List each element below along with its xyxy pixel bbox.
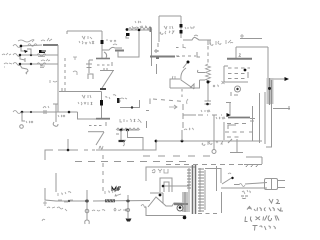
label mic scribble (4, 63, 12, 67)
label 1PF (185, 27, 195, 29)
note line2 (247, 207, 283, 212)
grid dashes in box (228, 68, 250, 79)
chassis corner bottom right (244, 157, 262, 167)
dash right (146, 110, 149, 112)
coupling cap C1 black blob (101, 40, 104, 44)
small ticks on wire (58, 200, 73, 202)
dash right of bar (176, 48, 180, 57)
input squiggle (13, 111, 21, 114)
label V3 (82, 95, 91, 98)
note V2 (269, 199, 280, 204)
cathode bar V3 (88, 131, 104, 133)
choke dot (68, 200, 70, 202)
B+ wire right (93, 200, 150, 203)
resistor R2 bumps (37, 54, 46, 57)
junction dot2 (30, 111, 32, 113)
speaker arrow line (273, 78, 285, 80)
node dot J3 (19, 63, 22, 66)
dashed row y161 (75, 161, 190, 163)
hooks below circle (231, 92, 238, 96)
label 47k row3 (41, 59, 50, 61)
cap blob upper right (117, 98, 120, 103)
top corner wire (236, 47, 268, 58)
tick above bar (154, 49, 158, 53)
label 10k (105, 190, 116, 194)
end tick (150, 27, 152, 32)
ground dark (119, 140, 126, 142)
dashed row y156 (143, 155, 216, 157)
V2 DRIVER / 56k SECTION (118, 16, 225, 105)
cap ticks on wire (44, 110, 46, 114)
corner up x230 (226, 103, 231, 116)
dot A (120, 129, 123, 132)
dashed vertical x103 (102, 155, 104, 192)
tick mark a (73, 57, 77, 60)
grid feed hook (198, 70, 206, 73)
bracket shapes (228, 125, 236, 129)
OT left lead (252, 106, 254, 141)
small circle bottom (212, 150, 216, 154)
junction dot row2 (30, 54, 32, 56)
corner to dashed row (149, 99, 151, 105)
label right of top (216, 117, 225, 119)
Mf dark label (112, 187, 121, 191)
V2 tube plate stroke (183, 63, 187, 68)
left bracket grid (170, 79, 200, 88)
corner bracket far left (45, 150, 53, 160)
jack J3 squiggle (13, 63, 21, 66)
ground tee left (58, 139, 78, 150)
grid leak drop (22, 112, 25, 121)
cathode hook left (88, 74, 93, 79)
coupling wire corner (120, 100, 140, 108)
input bus vertical (57, 45, 59, 112)
dashed vertical x182 upper (181, 89, 183, 98)
junction dot cathode (207, 81, 210, 84)
thick bar into PT (174, 203, 188, 205)
main junction dot (85, 199, 88, 202)
scribble right of blob (120, 98, 127, 99)
tick right (247, 72, 249, 78)
label input scribble (18, 40, 34, 42)
grid dashes V1a (97, 64, 110, 66)
dashes right of bar (176, 55, 196, 57)
grid line vertical x183 (182, 104, 184, 130)
small squiggle below label (113, 44, 117, 45)
node dot left (126, 28, 129, 31)
node dot J1 (20, 45, 23, 48)
label 12AX7 b (78, 102, 92, 105)
plate bar 2 thick (228, 117, 250, 119)
switch label (228, 173, 231, 174)
plate bar V1a (96, 58, 110, 60)
dot at step (155, 140, 158, 143)
label 56k (135, 21, 141, 23)
L mark (197, 52, 200, 57)
line to fuse (234, 184, 239, 186)
dot in box (244, 69, 247, 72)
screen filter vertical (127, 195, 129, 218)
step from y150 (96, 141, 156, 150)
INPUT SECTION TOP LEFT (2, 38, 58, 112)
hook below J3 (20, 65, 28, 74)
dash left (116, 133, 119, 135)
resistor R3 ticks (40, 66, 45, 68)
speaker lower line (273, 106, 290, 110)
tube box 2 (223, 122, 225, 140)
hook up from row2 dot (27, 49, 31, 55)
grid dashes box2 (225, 124, 248, 138)
plug body (265, 179, 278, 190)
label 47k row1 (41, 38, 52, 41)
label V2 (164, 26, 173, 29)
drop right stepping (128, 130, 144, 150)
ground small (20, 125, 24, 129)
thick wire segment row1 (43, 44, 58, 46)
grid tick V3 (105, 122, 107, 126)
note line small (241, 196, 248, 199)
note line3 (245, 216, 279, 222)
MAINS: SWITCH FUSE PLUG (205, 169, 285, 195)
label 12A (58, 192, 71, 196)
cathode resistor zigzag vertical x208 (207, 41, 209, 46)
cathode diagonal V3 (96, 132, 104, 145)
ground black (126, 219, 132, 222)
label 12AX7 (79, 41, 94, 44)
main filter vertical (86, 190, 88, 220)
label 6L6 (210, 40, 233, 45)
terminal circle (235, 86, 241, 92)
label .02 (184, 128, 193, 130)
coupling caps x181 blobs (180, 16, 182, 38)
label 47k cathode (213, 85, 218, 87)
label 2 above bar (239, 54, 241, 57)
HANDWRITTEN NOTES BOTTOM RIGHT (241, 196, 283, 231)
lower AC line (221, 187, 267, 189)
corner tick (43, 201, 47, 206)
small n mark (42, 219, 45, 221)
10k resistor dark block (105, 199, 115, 202)
label 2uF right (105, 95, 121, 101)
label V1 (82, 36, 92, 39)
cathode drop x56 (53, 104, 58, 122)
left lead ticks (249, 119, 255, 133)
label 1W (132, 26, 146, 28)
ground blob (53, 122, 58, 126)
OT vertical feed (266, 47, 272, 147)
thick bar on branch (115, 50, 124, 52)
V3 LOWER PREAMP STAGE (13, 92, 184, 151)
arrow toward dashes (169, 105, 177, 109)
grid dashes V3 (89, 125, 104, 127)
label 1A (242, 190, 250, 194)
RECTIFIER / 5Y3 BOX (146, 167, 196, 203)
dashdot grid line y115 (183, 114, 196, 116)
vertical x152 (151, 29, 153, 66)
junction dot mid (138, 29, 141, 32)
hump (148, 197, 186, 207)
POWER TRANSFORMER (182, 165, 222, 214)
LONG GROUND LINE y141 (45, 130, 262, 160)
mid bracket (200, 80, 206, 88)
resistor R3 bumps (37, 63, 46, 66)
bottom dashes (198, 213, 218, 215)
label uF (43, 106, 49, 108)
cathode diagonal (102, 71, 113, 88)
DASHED CHASSIS LINES (75, 155, 262, 192)
curl end (187, 99, 188, 104)
label 6L6 2 (202, 141, 223, 145)
plate vertical V3 (101, 92, 103, 119)
plate line upper (240, 38, 262, 40)
blob under bar (156, 57, 159, 59)
junction dot x69 (68, 111, 71, 114)
dot x182 (181, 140, 184, 143)
COUPLING TO 6L6 #2 (169, 89, 250, 154)
OT core lines (260, 92, 266, 144)
HEATER HUMP + B+ ENTRY (141, 197, 188, 219)
wire J2 (21, 54, 58, 56)
dot on plate (187, 61, 190, 64)
label 47k right of blob (106, 40, 116, 42)
junction dot (21, 111, 24, 114)
small arrow label (115, 194, 121, 196)
dashed row y164 (166, 164, 244, 166)
screen node dot (127, 200, 130, 203)
resistor R1 bumps (28, 44, 37, 47)
fuse curl (141, 205, 146, 208)
V1 STAGE TOP CENTER (59, 31, 124, 92)
heater wire lower (150, 193, 163, 203)
cathode hook small (104, 52, 107, 58)
label 8uF arrow (114, 208, 127, 211)
label 5Y3 (152, 169, 168, 173)
label 40uF (92, 210, 105, 211)
drop from 56k node (118, 31, 139, 57)
curl on line (99, 146, 103, 149)
tick below line (183, 44, 186, 48)
B+ wire left (56, 200, 87, 202)
small squiggle above line (123, 140, 126, 146)
cap circle 2 (126, 208, 129, 211)
branch y50 with curl (102, 47, 122, 50)
DASHED BOX EDGE LEFT OF V1 (64, 58, 66, 92)
right enclosure (217, 166, 222, 213)
resistor dark block row1b (40, 51, 46, 53)
OT secondary winding hatch (269, 78, 271, 105)
PT top lead (205, 169, 221, 184)
line y141 (156, 140, 262, 142)
tick column (146, 121, 148, 128)
drop to 6L6 box (209, 40, 211, 44)
label on hump (194, 35, 198, 36)
fuse squiggle (239, 184, 245, 187)
label 1M above (201, 110, 210, 112)
jack switch hook row1 (21, 47, 25, 51)
tiny label 1u (173, 76, 176, 79)
corner from left (45, 173, 56, 201)
wire y186 to PT (163, 185, 189, 187)
junction dot row3 (30, 63, 32, 65)
arrow contact black (24, 50, 28, 53)
plate bar thick (227, 58, 252, 60)
6L6 #1 TOP RIGHT (210, 34, 268, 96)
thick bar left x152 bottom (150, 56, 175, 58)
stub below bar (156, 64, 158, 74)
dashed vertical x65 (64, 58, 66, 92)
screen resistor hump line y40 (183, 37, 211, 40)
ground loop (85, 220, 90, 224)
resistor 56k zigzag (128, 27, 152, 30)
lower loop (146, 207, 186, 216)
tube box (224, 66, 248, 82)
label left row2 scribble (2, 53, 11, 55)
POWER SUPPLY B+ RAIL BOTTOM LEFT (42, 173, 150, 224)
mixer resistor zigzag (116, 128, 140, 130)
dot on winding (268, 87, 271, 90)
plate wire v1 (101, 31, 103, 59)
switch blade (222, 177, 233, 184)
percent mark (138, 119, 141, 123)
bypass cap bottom (205, 101, 212, 104)
cap blob below left dot (126, 33, 130, 36)
line to plug top (245, 183, 267, 185)
junction dot on corner wire (131, 106, 133, 108)
label 6SC7 (160, 31, 174, 34)
arrowhead black (227, 113, 232, 117)
wire under zigzag (117, 129, 139, 131)
junction dark (183, 216, 187, 220)
right winding hatch (199, 168, 201, 212)
label 47k x58 (58, 115, 65, 117)
link from x182 dashes (181, 130, 183, 141)
jack J1 squiggle (13, 45, 21, 48)
dot B (126, 129, 129, 132)
note line4 (253, 226, 276, 231)
cathode bar V1a (100, 68, 114, 71)
OUTPUT TRANSFORMER AREA (249, 47, 290, 147)
wire to lower stage (59, 88, 102, 92)
dashed row y98 (153, 99, 184, 102)
grid tick (111, 62, 113, 66)
grid cap column left (86, 60, 93, 73)
box top (146, 167, 196, 181)
small x mark (222, 81, 225, 84)
label watts scribble (47, 207, 67, 211)
secondary ticks (204, 170, 206, 210)
wire to V3 grid (21, 111, 78, 113)
node dot J2 (19, 54, 22, 57)
core lines dark (193, 165, 196, 214)
tick mark b (73, 71, 77, 75)
plate bar V3 (96, 118, 110, 120)
plus mark (240, 34, 244, 38)
top frame line (159, 16, 181, 42)
small marks right of dashed box edge (73, 57, 77, 75)
wire under zigzag (128, 29, 150, 31)
grid stopper hook row2 (20, 56, 25, 62)
label cluster tone (120, 119, 135, 122)
grid return vertical x214 (213, 115, 215, 150)
jack J2 squiggle (13, 54, 21, 57)
supply wire top (67, 31, 102, 34)
drop left to ground (120, 130, 122, 140)
label 1u near bus (50, 80, 57, 83)
tube curve check shape (181, 68, 194, 89)
left winding hatch (185, 168, 189, 212)
filter cap circle (85, 209, 89, 213)
wire J1 to bus (22, 45, 42, 46)
cathode dark bar (100, 88, 106, 90)
cathode arrow tip (190, 84, 194, 89)
label 17k (26, 121, 33, 123)
pilot lamp (177, 205, 183, 211)
dashes left of line (84, 149, 95, 151)
wire J3 (21, 63, 58, 65)
step down wire (78, 112, 97, 119)
coupling cap C2 blob (100, 100, 103, 106)
heater loops (160, 178, 172, 192)
